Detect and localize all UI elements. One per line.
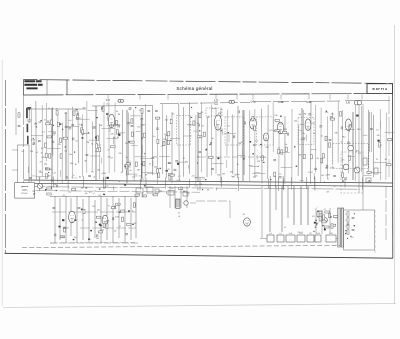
svg-text:R12: R12	[195, 185, 198, 187]
svg-text:R12: R12	[357, 129, 360, 131]
svg-text:1k: 1k	[237, 164, 239, 166]
svg-text:1k: 1k	[91, 144, 93, 146]
svg-text:c4: c4	[107, 150, 109, 152]
svg-text:1k: 1k	[274, 176, 276, 178]
svg-text:R12: R12	[154, 157, 157, 159]
svg-text:0,5M: 0,5M	[325, 175, 330, 177]
svg-text:330: 330	[54, 184, 57, 186]
svg-text:220: 220	[125, 143, 128, 145]
svg-text:2M: 2M	[118, 114, 121, 116]
svg-text:R12: R12	[342, 136, 345, 138]
svg-text:5n: 5n	[102, 218, 104, 220]
svg-text:2M: 2M	[230, 172, 233, 174]
svg-text:1k: 1k	[164, 134, 166, 136]
svg-text:1k: 1k	[94, 191, 96, 193]
svg-text:0,1: 0,1	[51, 180, 54, 182]
svg-text:5n: 5n	[335, 218, 337, 220]
svg-text:220: 220	[217, 175, 220, 177]
svg-text:1k: 1k	[279, 173, 281, 175]
svg-text:0,1: 0,1	[200, 184, 203, 186]
svg-text:47k: 47k	[326, 192, 329, 194]
svg-text:5n: 5n	[139, 110, 141, 112]
svg-text:47k: 47k	[140, 119, 143, 121]
svg-text:2n: 2n	[149, 164, 151, 166]
svg-text:0,5M: 0,5M	[140, 124, 145, 126]
svg-text:25p: 25p	[236, 174, 239, 176]
svg-text:4,7: 4,7	[41, 148, 44, 150]
svg-text:25p: 25p	[44, 163, 47, 165]
svg-text:47k: 47k	[218, 113, 221, 115]
svg-text:2x35: 2x35	[329, 233, 333, 235]
svg-text:68: 68	[117, 137, 119, 139]
svg-text:1k: 1k	[172, 114, 174, 116]
svg-text:2x35: 2x35	[289, 233, 293, 235]
svg-text:1k: 1k	[205, 150, 207, 152]
svg-text:220: 220	[351, 237, 354, 239]
svg-text:0,1: 0,1	[255, 141, 258, 143]
svg-text:PO-GO: PO-GO	[21, 193, 28, 195]
svg-text:25: 25	[376, 159, 378, 161]
svg-text:68: 68	[315, 225, 317, 227]
svg-text:L2: L2	[106, 98, 110, 102]
svg-text:68: 68	[207, 189, 209, 191]
svg-text:1k: 1k	[48, 175, 50, 177]
svg-text:R12: R12	[77, 118, 80, 120]
svg-text:150: 150	[274, 115, 277, 117]
svg-text:330: 330	[92, 126, 95, 128]
svg-text:70: 70	[91, 171, 93, 173]
svg-text:c4: c4	[220, 109, 222, 111]
svg-text:5n: 5n	[325, 168, 327, 170]
svg-text:220: 220	[61, 237, 64, 239]
svg-text:8,2: 8,2	[142, 196, 145, 198]
svg-text:B 87 TI A: B 87 TI A	[373, 87, 388, 91]
svg-text:4,7: 4,7	[202, 178, 205, 180]
svg-text:10n: 10n	[197, 156, 200, 158]
svg-text:220: 220	[41, 157, 44, 159]
svg-text:R12: R12	[265, 147, 268, 149]
svg-text:68: 68	[322, 175, 324, 177]
svg-text:4,7: 4,7	[380, 145, 383, 147]
svg-text:2n: 2n	[116, 111, 118, 113]
svg-text:10n: 10n	[299, 155, 302, 157]
svg-text:25p: 25p	[74, 237, 77, 239]
svg-text:220: 220	[294, 121, 297, 123]
svg-text:Schéma général: Schéma général	[176, 86, 212, 91]
svg-text:220: 220	[325, 112, 328, 114]
svg-text:L4a: L4a	[251, 100, 256, 104]
svg-text:5n: 5n	[327, 178, 329, 180]
svg-text:0,5M: 0,5M	[115, 217, 119, 219]
svg-text:2M: 2M	[86, 142, 89, 144]
svg-text:2M: 2M	[140, 164, 143, 166]
svg-text:10n: 10n	[85, 193, 88, 195]
svg-text:220: 220	[108, 157, 111, 159]
svg-text:10n: 10n	[114, 230, 117, 232]
svg-text:70: 70	[127, 162, 129, 164]
svg-text:68: 68	[299, 114, 301, 116]
svg-text:4,7: 4,7	[40, 161, 43, 163]
svg-text:2000: 2000	[214, 104, 218, 106]
svg-text:47k: 47k	[331, 114, 334, 116]
svg-text:0,1: 0,1	[279, 233, 281, 235]
svg-text:10n: 10n	[142, 178, 145, 180]
svg-text:2n: 2n	[341, 141, 343, 143]
svg-text:1k: 1k	[35, 123, 37, 125]
svg-text:c4: c4	[93, 176, 95, 178]
svg-text:2M: 2M	[100, 125, 103, 127]
svg-text:330: 330	[97, 210, 100, 212]
svg-text:8k: 8k	[326, 165, 328, 167]
svg-text:0,1: 0,1	[89, 192, 92, 194]
svg-text:10n: 10n	[341, 160, 344, 162]
svg-text:5n: 5n	[44, 120, 46, 122]
svg-text:150: 150	[65, 178, 68, 180]
svg-text:c4: c4	[278, 148, 280, 150]
svg-text:25p: 25p	[132, 176, 135, 178]
svg-text:2M: 2M	[49, 169, 52, 171]
svg-text:2M: 2M	[137, 170, 140, 172]
svg-text:68: 68	[385, 159, 387, 161]
svg-text:150: 150	[32, 175, 35, 177]
svg-text:0,1: 0,1	[64, 113, 67, 115]
svg-text:330: 330	[96, 238, 99, 240]
svg-text:0,1: 0,1	[64, 150, 67, 152]
svg-text:1k: 1k	[103, 188, 105, 190]
svg-text:330: 330	[255, 176, 258, 178]
svg-text:c4: c4	[161, 145, 163, 147]
svg-text:2n: 2n	[107, 186, 109, 188]
svg-text:330: 330	[163, 139, 166, 141]
svg-text:2n: 2n	[278, 131, 280, 133]
svg-text:68: 68	[201, 112, 203, 114]
svg-text:0,1: 0,1	[358, 153, 361, 155]
svg-text:5n: 5n	[56, 109, 58, 111]
svg-text:5n: 5n	[130, 170, 132, 172]
svg-text:220: 220	[207, 117, 210, 119]
svg-text:2n: 2n	[303, 133, 305, 135]
svg-text:220: 220	[257, 161, 260, 163]
svg-text:125: 125	[309, 233, 312, 235]
svg-text:4,7: 4,7	[376, 130, 379, 132]
svg-text:2M: 2M	[38, 122, 41, 124]
svg-text:10n: 10n	[70, 163, 73, 165]
svg-text:8k: 8k	[79, 177, 81, 179]
svg-text:220: 220	[263, 157, 266, 159]
svg-text:L6: L6	[346, 101, 350, 105]
svg-text:0,1: 0,1	[74, 178, 77, 180]
svg-text:10n: 10n	[69, 154, 72, 156]
svg-text:25p: 25p	[97, 169, 100, 171]
svg-text:56k: 56k	[171, 188, 174, 190]
svg-text:150: 150	[165, 120, 168, 122]
svg-text:2M: 2M	[222, 174, 225, 176]
svg-text:R12: R12	[101, 230, 104, 232]
svg-text:70: 70	[38, 178, 40, 180]
svg-text:47k: 47k	[377, 135, 380, 137]
svg-text:1k: 1k	[212, 138, 214, 140]
svg-text:L3: L3	[214, 99, 218, 103]
svg-text:6,3: 6,3	[284, 227, 286, 229]
svg-text:0,1: 0,1	[75, 141, 78, 143]
svg-text:0,5M: 0,5M	[31, 139, 36, 141]
svg-text:0,5M: 0,5M	[301, 139, 306, 141]
svg-text:5n: 5n	[153, 136, 155, 138]
svg-text:ondes: ondes	[22, 190, 28, 192]
svg-text:47k: 47k	[168, 163, 171, 165]
svg-text:2M: 2M	[303, 114, 306, 116]
svg-text:47k: 47k	[185, 162, 188, 164]
svg-text:2x35: 2x35	[316, 233, 320, 235]
svg-text:68: 68	[141, 138, 143, 140]
svg-text:330: 330	[335, 133, 338, 135]
svg-text:220: 220	[192, 176, 195, 178]
svg-text:25p: 25p	[95, 151, 98, 153]
svg-text:2M: 2M	[32, 144, 35, 146]
svg-text:68: 68	[117, 204, 119, 206]
svg-text:47k: 47k	[260, 157, 263, 159]
svg-text:150: 150	[311, 123, 314, 125]
svg-text:68: 68	[317, 158, 319, 160]
svg-text:0,1: 0,1	[128, 109, 131, 111]
svg-text:x1 x: x1 x	[106, 104, 109, 106]
svg-text:47k: 47k	[58, 144, 61, 146]
svg-text:70: 70	[202, 125, 204, 127]
svg-text:L4b: L4b	[279, 100, 284, 104]
svg-text:10n: 10n	[137, 127, 140, 129]
svg-text:220: 220	[68, 192, 71, 194]
svg-text:c4: c4	[39, 170, 41, 172]
svg-text:2n: 2n	[132, 211, 134, 213]
svg-text:0,1: 0,1	[52, 135, 55, 137]
svg-text:70: 70	[197, 123, 199, 125]
svg-text:2n: 2n	[82, 219, 84, 221]
svg-text:2M: 2M	[124, 167, 127, 169]
svg-text:5n: 5n	[228, 125, 230, 127]
svg-text:5n: 5n	[285, 144, 287, 146]
svg-text:2n: 2n	[126, 157, 128, 159]
svg-text:4,7: 4,7	[110, 158, 113, 160]
svg-text:220: 220	[118, 153, 121, 155]
svg-text:70: 70	[168, 169, 170, 171]
svg-text:150: 150	[284, 129, 287, 131]
svg-text:0,5M: 0,5M	[330, 168, 335, 170]
svg-text:150: 150	[279, 124, 282, 126]
svg-text:6,3: 6,3	[269, 233, 271, 235]
svg-text:c4: c4	[257, 166, 259, 168]
svg-text:220: 220	[110, 133, 113, 135]
svg-text:4,7: 4,7	[178, 176, 181, 178]
svg-text:8k: 8k	[85, 161, 87, 163]
svg-text:330: 330	[159, 191, 162, 193]
svg-text:220: 220	[66, 228, 69, 230]
svg-text:4,7: 4,7	[119, 226, 122, 228]
svg-text:1k: 1k	[81, 187, 83, 189]
svg-text:1k: 1k	[41, 153, 43, 155]
svg-text:4,7: 4,7	[121, 172, 124, 174]
svg-text:70: 70	[241, 142, 243, 144]
svg-text:1k: 1k	[48, 108, 50, 110]
svg-text:4,7: 4,7	[334, 186, 337, 188]
svg-text:220: 220	[39, 172, 42, 174]
svg-text:c4: c4	[36, 152, 38, 154]
svg-text:220: 220	[154, 167, 157, 169]
svg-text:70: 70	[71, 177, 73, 179]
svg-text:1k: 1k	[321, 135, 323, 137]
svg-text:2n: 2n	[231, 176, 233, 178]
svg-text:4,7: 4,7	[54, 172, 57, 174]
svg-text:8k: 8k	[75, 164, 77, 166]
svg-text:4,7: 4,7	[41, 188, 44, 190]
svg-text:70: 70	[108, 206, 110, 208]
svg-text:150: 150	[139, 176, 142, 178]
svg-text:150: 150	[92, 206, 95, 208]
svg-text:220: 220	[30, 151, 33, 153]
svg-text:c4: c4	[93, 193, 95, 195]
svg-text:47k: 47k	[82, 107, 85, 109]
svg-text:0,5M: 0,5M	[101, 173, 106, 175]
svg-text:0,1: 0,1	[42, 131, 45, 133]
svg-text:gamme: gamme	[21, 186, 28, 188]
svg-text:4,7: 4,7	[199, 137, 202, 139]
svg-text:70: 70	[183, 158, 185, 160]
svg-text:250 V: 250 V	[298, 232, 304, 234]
svg-text:47k: 47k	[312, 216, 315, 218]
svg-text:2n: 2n	[313, 133, 315, 135]
